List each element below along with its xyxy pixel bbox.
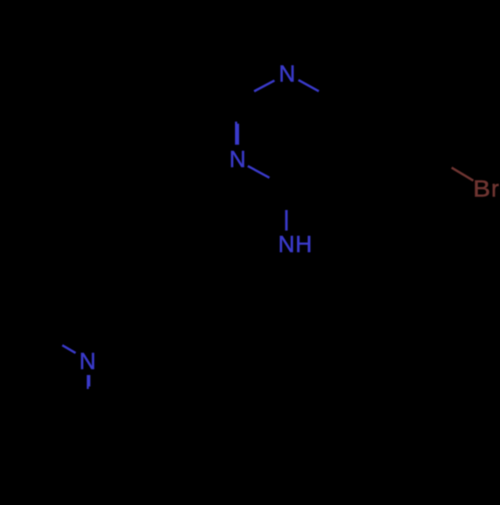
svg-text:N: N (279, 61, 296, 87)
svg-text:B: B (473, 177, 490, 202)
svg-text:N: N (278, 231, 295, 257)
bond C4-NH (blue half, vertical) (285, 210, 288, 231)
bond N3-C4 (blue half) (248, 166, 270, 178)
double bond C2=N3 (blue half, two merged vertical lines) (235, 122, 237, 145)
bond N1-C8a (blue half) (298, 80, 318, 91)
bond N1-C2 (blue half) (254, 81, 274, 92)
svg-text:N: N (229, 146, 246, 172)
svg-text:r: r (491, 176, 499, 202)
svg-text:N: N (79, 348, 96, 374)
double bond N=C (blue half, below bottom N, two merged vertical lines) (87, 375, 89, 389)
bond C6-Br (brown half) (452, 168, 474, 181)
bond N-CH3 (blue half, up-left) (62, 345, 75, 353)
atom label Br (473, 177, 490, 202)
svg-text:H: H (295, 231, 312, 257)
